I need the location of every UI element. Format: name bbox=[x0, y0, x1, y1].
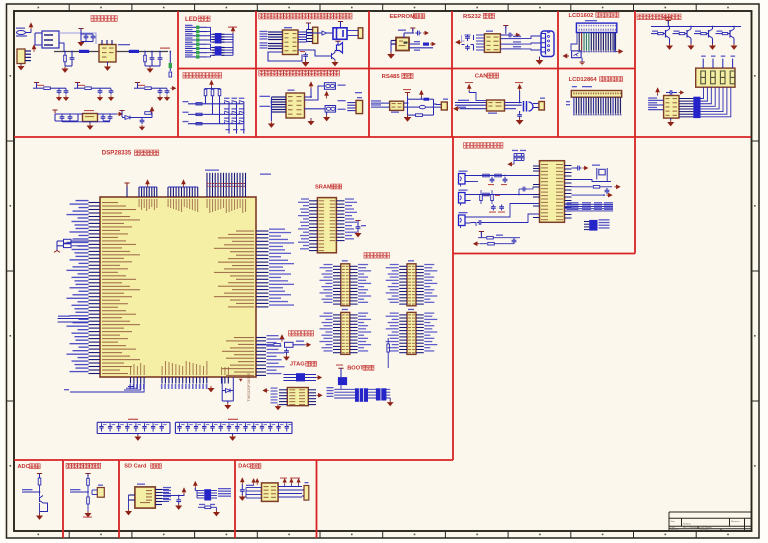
power flag bbox=[29, 23, 32, 30]
capacitor bbox=[491, 205, 496, 211]
expansion header connector bbox=[341, 312, 350, 354]
label bbox=[137, 484, 145, 485]
power flag relay bbox=[338, 22, 343, 25]
power flag bbox=[338, 368, 343, 371]
module title: waikuo(expansion) header label bbox=[364, 253, 389, 259]
power flag bbox=[306, 23, 311, 26]
SD socket J9 bbox=[135, 487, 155, 508]
labels bbox=[280, 478, 287, 479]
net wire left bbox=[58, 318, 89, 320]
capacitor bbox=[176, 498, 181, 504]
label bbox=[443, 99, 448, 100]
ground bbox=[388, 52, 394, 58]
label bbox=[357, 97, 362, 98]
label +5V bbox=[160, 48, 170, 49]
capacitor bbox=[60, 115, 65, 121]
wires rp left bbox=[197, 490, 204, 492]
svg-text:DAC: DAC bbox=[238, 464, 250, 470]
port arrow bbox=[171, 87, 176, 90]
wire rail (dark) bbox=[54, 51, 99, 53]
port arrow bbox=[515, 33, 520, 36]
wires IC right bbox=[565, 165, 572, 167]
connector CON3 bbox=[441, 102, 447, 110]
net label bbox=[592, 165, 600, 166]
module title: bujin dianji fengmingqi jidianqi module bbox=[259, 13, 352, 19]
expansion header connector bbox=[407, 312, 416, 354]
power flag bbox=[85, 474, 90, 477]
resistor pack RP4 bbox=[693, 97, 700, 118]
diode bbox=[226, 389, 231, 393]
wire LED row bbox=[185, 39, 196, 41]
digit eight bbox=[711, 71, 716, 84]
diode bbox=[322, 31, 327, 35]
module title: juzhen anjian(keypad) module bbox=[183, 73, 222, 79]
svg-text:JTAG: JTAG bbox=[290, 362, 305, 368]
DB9 connector J3 bbox=[541, 31, 554, 57]
ground bbox=[276, 404, 281, 409]
wire LED row bbox=[185, 52, 196, 54]
wire key column bbox=[236, 102, 238, 134]
DIP switch block bbox=[338, 377, 347, 385]
RC filter cell 1 bbox=[34, 83, 39, 86]
svg-text:LED: LED bbox=[185, 16, 198, 23]
diode 2 bbox=[419, 105, 425, 108]
port arrow bbox=[617, 50, 623, 54]
resistor bbox=[491, 195, 494, 201]
power flag bbox=[241, 478, 244, 485]
net labels bbox=[512, 150, 518, 151]
diode/part bbox=[423, 43, 429, 46]
capacitor bbox=[517, 113, 522, 119]
ground bbox=[269, 122, 274, 128]
wire mid vertical bbox=[407, 95, 409, 115]
capacitor bbox=[101, 115, 106, 121]
wires right bbox=[409, 43, 420, 45]
header label bbox=[342, 260, 348, 261]
key switch bbox=[239, 101, 244, 104]
capacitor bbox=[303, 53, 308, 59]
resistor pack RP1 bbox=[215, 33, 222, 44]
ground bbox=[62, 67, 67, 73]
ground bbox=[87, 124, 92, 130]
wires IC to RP bbox=[679, 98, 693, 100]
connector CON4 (yellow) bbox=[17, 49, 25, 64]
wires IC left bbox=[648, 99, 664, 101]
buzzer LS1 bbox=[337, 43, 343, 54]
wire bbox=[483, 214, 540, 223]
wires down bbox=[573, 97, 575, 114]
port arrow bbox=[679, 91, 684, 94]
power flag VCC bbox=[231, 27, 234, 34]
svg-text:SD Card: SD Card bbox=[124, 464, 147, 470]
port arrow bbox=[614, 185, 619, 188]
wire bbox=[530, 187, 540, 189]
net labels bbox=[566, 101, 570, 102]
power flag bbox=[252, 479, 255, 485]
junction dots bbox=[64, 51, 66, 53]
label bbox=[84, 110, 94, 111]
connector CON4m bbox=[356, 100, 363, 113]
wire LED row bbox=[185, 26, 196, 28]
label regulator bbox=[118, 44, 130, 45]
wire key column bbox=[243, 102, 245, 134]
diode pair D3 bbox=[324, 83, 335, 90]
capacitor bbox=[64, 89, 69, 95]
resistor R9 bbox=[274, 344, 281, 347]
RC network jack2 bbox=[471, 194, 540, 196]
LCD1602 header J4 bbox=[576, 23, 616, 32]
labels bbox=[414, 41, 420, 42]
power flag bbox=[290, 479, 293, 485]
net label bbox=[205, 170, 219, 171]
wire LED row bbox=[185, 35, 196, 37]
LED (green) bbox=[196, 26, 200, 29]
module title: shumaguan(7-seg) module bbox=[637, 14, 681, 20]
DSP bottom right cell bbox=[221, 377, 223, 401]
svg-text:LCD12864: LCD12864 bbox=[569, 77, 598, 83]
resistor pack RP2 bbox=[215, 46, 222, 55]
wire bbox=[245, 488, 247, 499]
ground bbox=[240, 495, 245, 501]
wire row bbox=[22, 491, 40, 493]
wire to arrow bbox=[162, 494, 184, 496]
wires rp right + labels bbox=[211, 490, 217, 492]
power flag bbox=[182, 488, 185, 495]
capacitor bbox=[140, 118, 145, 124]
wires IC left group B bbox=[268, 43, 283, 45]
ground bbox=[18, 64, 23, 70]
connector CON2 bbox=[358, 28, 363, 39]
module title: fuwei(reset) module bbox=[289, 331, 314, 337]
7seg display DS1 bbox=[696, 68, 735, 87]
LCD12864 header J5 bbox=[571, 91, 621, 98]
net label bbox=[652, 31, 658, 32]
wire bbox=[571, 33, 577, 51]
port arrow bbox=[583, 166, 588, 169]
svg-text:Number: Number bbox=[683, 523, 691, 526]
wire jack3 bbox=[471, 204, 540, 218]
wire bbox=[87, 504, 89, 511]
ground bbox=[214, 510, 219, 516]
resistor R6 bbox=[211, 89, 214, 96]
inductor L1 bbox=[79, 50, 89, 53]
wires RP to display (fan) bbox=[701, 87, 704, 98]
wires display top bbox=[702, 59, 704, 69]
wires right bbox=[505, 102, 522, 104]
power flag bbox=[325, 92, 328, 99]
svg-text:SRAM: SRAM bbox=[315, 184, 332, 190]
wire keypad row bbox=[188, 103, 243, 105]
resistor R5 bbox=[204, 89, 207, 96]
diode pair D4 bbox=[325, 106, 336, 113]
DSP top pin group 1 bbox=[126, 183, 128, 197]
port arrow bbox=[430, 42, 435, 45]
wire left bus bbox=[270, 97, 272, 121]
capacitor bbox=[108, 115, 113, 121]
key switch bbox=[224, 121, 229, 124]
border zone numbers bbox=[38, 7, 40, 9]
power flag VCC bbox=[210, 81, 213, 88]
audio codec IC U13 (VS1003) bbox=[540, 161, 565, 223]
wire LED row bbox=[185, 47, 196, 49]
module title: bujin dianji zhiliu dianji module bbox=[259, 70, 340, 76]
audio jack J8 bbox=[459, 215, 466, 226]
gpio label rows bbox=[565, 203, 614, 205]
DSP top pin group 2 bbox=[139, 187, 157, 197]
voltage regulator U1 bbox=[99, 45, 116, 63]
wires to connector bbox=[347, 102, 356, 104]
capacitor bbox=[109, 89, 114, 95]
capacitor pair top-left bbox=[514, 153, 524, 155]
wire bbox=[404, 106, 420, 108]
svg-text:BOOT: BOOT bbox=[347, 366, 364, 372]
resistor R11 bbox=[87, 478, 90, 485]
capacitor bbox=[240, 488, 245, 494]
DSP right pin rows upper bbox=[214, 229, 294, 308]
svg-text:CAN: CAN bbox=[475, 74, 488, 80]
svg-text:Revision: Revision bbox=[731, 521, 740, 523]
ground bbox=[230, 435, 235, 441]
svg-text:LCD1602: LCD1602 bbox=[569, 13, 594, 19]
power flag bbox=[518, 85, 521, 92]
wire bbox=[122, 117, 125, 119]
port arrow bbox=[474, 242, 479, 245]
wire bbox=[307, 32, 319, 34]
ground bbox=[355, 231, 360, 237]
transistor driver bbox=[673, 33, 680, 35]
LED (green) bbox=[196, 30, 200, 33]
DSP chip U10 (TMS320F28335) bbox=[100, 197, 256, 377]
DSP top/bottom inner pin-name texture bbox=[130, 199, 246, 375]
capacitor bbox=[668, 90, 674, 95]
connector CON2c bbox=[539, 102, 545, 111]
DSP top pin group 4 (tall) bbox=[207, 173, 246, 197]
module title: wendu caiji(temp) module bbox=[66, 463, 101, 468]
RC filter cell 3 bbox=[135, 83, 140, 86]
wire bbox=[305, 96, 312, 98]
digit eight bbox=[701, 71, 706, 84]
power flag gnd-T bbox=[503, 26, 508, 29]
ground bbox=[303, 60, 309, 66]
SRAM decoupling cap bbox=[355, 221, 360, 224]
capacitor bbox=[477, 220, 483, 225]
resistor R7 bbox=[218, 89, 221, 96]
wire bbox=[55, 113, 83, 115]
RC filter cell 2 bbox=[75, 83, 80, 86]
resistor bbox=[196, 113, 202, 115]
port arrow bbox=[263, 389, 268, 392]
wires caps to IC bbox=[476, 34, 484, 36]
ground bbox=[710, 44, 715, 50]
net label bbox=[695, 31, 701, 32]
title block frame bbox=[669, 512, 752, 531]
power flag bbox=[283, 479, 286, 485]
power flag bbox=[182, 180, 185, 187]
DSP left pin rows (stubs+labels) bbox=[67, 200, 141, 374]
wires left + gnd bbox=[391, 40, 396, 42]
capacitor C5 bbox=[158, 56, 163, 62]
transistor Q1 bbox=[332, 53, 336, 60]
thermistor RT1 bbox=[87, 497, 90, 504]
power flag bbox=[280, 335, 283, 342]
labels bbox=[398, 30, 406, 31]
digit eight bbox=[720, 71, 725, 84]
LED D1 (green) bbox=[169, 63, 172, 68]
DSP bottom group A bbox=[129, 377, 144, 389]
ground bbox=[284, 355, 289, 360]
wire bbox=[98, 113, 118, 115]
jumper block 2 bbox=[376, 388, 387, 400]
power flag bbox=[420, 91, 423, 98]
headphone jack bbox=[589, 220, 597, 231]
power flag bbox=[410, 28, 415, 31]
ground bbox=[332, 60, 337, 66]
wire bbox=[408, 98, 424, 100]
wires right with labels bbox=[500, 38, 521, 40]
capacitor bbox=[165, 89, 170, 95]
driver IC U3 (ULN2003) bbox=[283, 30, 299, 55]
wire loop under IC bbox=[268, 52, 302, 61]
resistor pack RP5 bbox=[204, 489, 211, 500]
port arrow bbox=[454, 107, 460, 111]
ground bbox=[405, 115, 411, 121]
power flag bbox=[119, 111, 124, 114]
ground bbox=[308, 119, 313, 125]
ground bbox=[667, 44, 672, 50]
decoupling cap group 2 bbox=[175, 422, 292, 433]
wire keypad row bbox=[188, 123, 243, 125]
wire key column bbox=[228, 102, 230, 134]
wire bbox=[305, 108, 326, 110]
reset part bbox=[285, 342, 294, 347]
power flag bbox=[37, 474, 42, 477]
resistor bbox=[196, 123, 202, 125]
wires left bbox=[246, 487, 262, 489]
port arrow bbox=[305, 343, 310, 346]
digit eight bbox=[730, 71, 735, 84]
svg-text:EEPROM: EEPROM bbox=[390, 14, 416, 20]
ground bbox=[78, 40, 83, 46]
key switch bbox=[239, 111, 244, 114]
key switch bbox=[224, 101, 229, 104]
ground bbox=[140, 125, 145, 130]
ground bbox=[225, 403, 230, 409]
capacitor C2 bbox=[91, 34, 96, 40]
capacitor C6 bbox=[415, 31, 421, 36]
wire cap right bbox=[572, 167, 576, 169]
decoupling cap group 1 bbox=[97, 422, 170, 433]
wire reset row bbox=[256, 344, 273, 346]
wires IC left group A bbox=[268, 31, 283, 33]
expansion header connector bbox=[407, 264, 416, 306]
EEPROM IC U5 (24C02) bbox=[396, 38, 409, 51]
net label bbox=[674, 31, 680, 32]
crystal Y1 bbox=[599, 169, 605, 175]
wires IC right bbox=[298, 31, 307, 33]
wire elbow bus bbox=[128, 384, 134, 387]
ground bbox=[208, 386, 213, 392]
module title: dianyuan(power) module bbox=[91, 16, 117, 22]
capacitor bank left bbox=[465, 35, 470, 41]
power label bbox=[228, 419, 238, 420]
key switch bbox=[232, 101, 237, 104]
svg-text:RS232: RS232 bbox=[463, 14, 482, 20]
wire light bbox=[59, 33, 96, 44]
wire keypad row bbox=[188, 113, 243, 115]
ground bbox=[668, 120, 673, 126]
ground bbox=[135, 435, 140, 441]
transistor driver bbox=[716, 33, 723, 35]
wire top bbox=[403, 33, 405, 38]
resistor bbox=[480, 195, 483, 201]
capacitor bbox=[521, 187, 527, 192]
port arrow bbox=[423, 31, 428, 34]
resistor R8 bbox=[416, 114, 423, 117]
ground bbox=[688, 44, 693, 50]
wire LED row bbox=[185, 56, 196, 58]
ground bbox=[731, 44, 736, 50]
power flag bbox=[146, 180, 149, 187]
power flag bbox=[405, 93, 410, 96]
transistor Q2 bbox=[40, 496, 44, 504]
DSP bottom group C bbox=[221, 377, 223, 384]
audio jack J7 bbox=[459, 193, 466, 204]
net label bbox=[296, 341, 304, 342]
wire bbox=[39, 485, 41, 496]
SRAM IC U11 bbox=[317, 198, 336, 253]
resistor bbox=[196, 103, 202, 105]
port arrow bbox=[563, 54, 569, 58]
transistor driver bbox=[651, 33, 658, 35]
ground bbox=[85, 511, 90, 517]
power label bbox=[128, 419, 138, 420]
resistor R3 bbox=[169, 72, 172, 77]
capacitor C4 bbox=[150, 56, 155, 62]
power flag bbox=[656, 88, 659, 95]
wire top bus bbox=[651, 26, 741, 28]
svg-text:RS485: RS485 bbox=[382, 74, 401, 80]
svg-text:Sheet of: Sheet of bbox=[671, 529, 679, 532]
power flag bbox=[150, 107, 153, 114]
power flag bbox=[335, 41, 340, 44]
capacitor bbox=[605, 188, 610, 194]
wire bbox=[222, 400, 233, 402]
transistor driver bbox=[694, 33, 701, 35]
connector CON5 bbox=[313, 27, 318, 43]
net label bbox=[717, 31, 723, 32]
DSP right pin rows lower bbox=[222, 335, 285, 376]
capacitor C1 bbox=[84, 34, 89, 40]
ground bbox=[126, 509, 131, 515]
wire bbox=[40, 503, 48, 512]
ground bbox=[388, 400, 393, 405]
ground bbox=[537, 58, 543, 64]
wires right rows bbox=[155, 489, 162, 491]
jumper block 1 bbox=[355, 388, 368, 402]
choke/filter bbox=[523, 101, 525, 112]
DAC IC U15 bbox=[262, 483, 279, 502]
key switch bbox=[232, 121, 237, 124]
inductor L2 bbox=[129, 50, 139, 53]
wire bus bbox=[205, 88, 221, 90]
LED (green) bbox=[196, 43, 200, 46]
wire bbox=[408, 114, 416, 116]
wire bbox=[35, 32, 42, 34]
wire row bbox=[70, 491, 88, 493]
connector J1 bbox=[17, 31, 26, 35]
wires left bbox=[371, 102, 390, 104]
resistor R1 bbox=[64, 55, 67, 62]
